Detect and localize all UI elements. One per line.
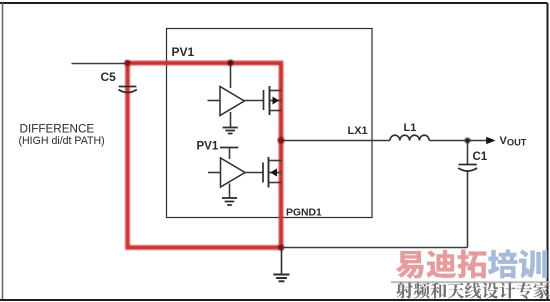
svg-text:VOUT: VOUT bbox=[500, 135, 527, 147]
watermark 易迪拓培训 + underline + 射频和天线设计专家 bbox=[391, 281, 550, 283]
inductor L1 bbox=[390, 135, 429, 140]
wire L1 to output bbox=[429, 140, 487, 142]
wire C5 branch bbox=[127, 63, 129, 248]
transistor Q1 (high-side FET) bbox=[264, 86, 282, 115]
capacitor C1 bbox=[458, 141, 477, 248]
svg-text:C1: C1 bbox=[473, 151, 488, 163]
svg-text:PV1: PV1 bbox=[197, 141, 219, 153]
node output junction bbox=[465, 138, 471, 144]
ground (driver1) bbox=[223, 112, 238, 134]
wire ground return bbox=[128, 247, 468, 249]
op-amp driver U2 (gate driver triangle) bbox=[208, 158, 263, 187]
svg-text:LX1: LX1 bbox=[348, 125, 368, 137]
svg-text:PGND1: PGND1 bbox=[286, 208, 322, 219]
node driver1 supply junction bbox=[227, 60, 233, 66]
node ground corner junction bbox=[278, 245, 284, 251]
svg-text:L1: L1 bbox=[404, 122, 417, 134]
ground (main) bbox=[273, 248, 289, 282]
wire input rail bbox=[72, 63, 282, 65]
svg-text:DIFFERENCE: DIFFERENCE bbox=[20, 123, 95, 136]
wire switch-node rail bbox=[280, 63, 282, 248]
op-amp driver U1 (gate driver triangle) bbox=[208, 87, 264, 116]
power tap PV1 (bar) bbox=[220, 148, 238, 160]
arrow VOUT bbox=[486, 137, 495, 145]
svg-text:C5: C5 bbox=[101, 70, 117, 84]
IC outline box bbox=[167, 29, 373, 218]
wire LX node bbox=[281, 140, 390, 142]
svg-text:PV1: PV1 bbox=[172, 45, 195, 59]
red high di/dt loop highlight bbox=[128, 63, 282, 248]
ground (driver2) bbox=[222, 184, 237, 206]
capacitor C5 bbox=[118, 87, 136, 93]
wire driver1 supply bbox=[230, 63, 232, 88]
node LX junction bbox=[278, 137, 285, 144]
svg-text:(HIGH di/dt PATH): (HIGH di/dt PATH) bbox=[19, 135, 105, 147]
transistor Q2 (low-side FET) bbox=[263, 157, 282, 188]
node C5 tap junction bbox=[124, 60, 130, 66]
